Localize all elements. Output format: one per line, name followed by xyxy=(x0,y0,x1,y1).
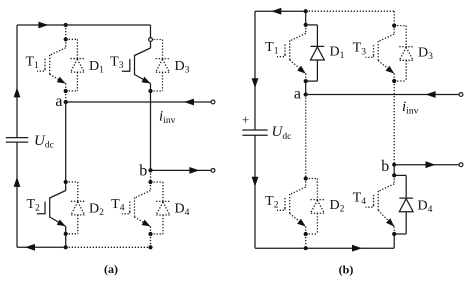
junction at (150.5,247.3) (a) xyxy=(148,245,152,249)
wire: node b down to T4 collector junction (a) xyxy=(150,170,152,182)
diode D3 (a) xyxy=(151,40,170,92)
wire: left rail lower (b) xyxy=(254,135,256,248)
wire: bottom rail (b) xyxy=(255,247,394,249)
diode D2 (b) xyxy=(306,179,325,235)
wire: left rail lower (a) xyxy=(16,142,18,247)
transistor T1 (a) xyxy=(37,39,66,91)
capacitor Udc (b) xyxy=(242,129,267,131)
current arrow on bottom rail (b), pointing right xyxy=(352,245,362,252)
svg-text:T2: T2 xyxy=(26,197,40,214)
current arrow on left rail lower (a), pointing up xyxy=(14,177,21,187)
svg-text:D3: D3 xyxy=(418,45,433,62)
junction at (394.2,175.4) (b) xyxy=(392,173,396,177)
wire: left rail upper (a) xyxy=(16,25,18,138)
junction at (65.7,233.8) (a) xyxy=(64,232,68,236)
wire: node a to output terminal (a) xyxy=(66,101,213,103)
current arrow on left rail upper (a), pointing up xyxy=(14,87,21,97)
svg-text:b: b xyxy=(381,158,389,175)
wire: node a to output terminal (b) xyxy=(306,94,461,96)
svg-text:Udc: Udc xyxy=(272,124,292,142)
wire: node b to output terminal (a) xyxy=(151,169,214,171)
junction at (65.7,182) (a) xyxy=(64,180,68,184)
svg-text:D4: D4 xyxy=(418,199,433,216)
node b (a) xyxy=(148,168,152,172)
junction at (65.7,247.3) (a) xyxy=(64,245,68,249)
current arrow on bottom rail (a), pointing left xyxy=(25,244,35,251)
svg-text:T1: T1 xyxy=(265,40,279,57)
current arrow on left rail upper (b), pointing down xyxy=(252,78,259,88)
transistor T3 (a) xyxy=(122,40,151,92)
wire: T4 emitter junction to bottom rail (a) xyxy=(150,234,152,247)
diode D4 (a) xyxy=(151,182,170,234)
current arrow on b wire (a), pointing right xyxy=(189,167,199,174)
wire: node a down to T2 collector junction (a) xyxy=(65,102,67,182)
junction at (305.7,178.5) (b) xyxy=(304,176,308,180)
junction at (305.7,24.9) (b) xyxy=(304,23,308,27)
transistor T1 (b) xyxy=(277,25,306,81)
svg-text:T3: T3 xyxy=(110,54,124,71)
current arrow i_inv (b), pointing left xyxy=(426,91,436,98)
junction at (394.2,81) (b) xyxy=(392,79,396,83)
svg-text:iinv: iinv xyxy=(402,99,419,117)
wire: T1/D1 junction down to node a xyxy=(65,91,67,102)
current arrow on b wire (b), pointing right xyxy=(426,161,436,168)
circuit (a) xyxy=(6,22,215,276)
wire: T3/D3 junction down to node b (b) xyxy=(393,81,395,165)
wire: left rail upper (b) xyxy=(254,11,256,130)
wire: bottom rail solid part (a) xyxy=(17,246,66,248)
wire: node b to output terminal (b) xyxy=(394,164,461,166)
node b (b) xyxy=(392,163,396,167)
wire: T4/D4 junction to bottom rail (b) xyxy=(393,234,395,248)
wire: leg A top stub (b) xyxy=(305,11,307,25)
junction at (305.7,11.2) (b) xyxy=(304,9,308,13)
current arrow on left rail lower (b), pointing down xyxy=(252,177,259,187)
junction at (65.7,25) (a) xyxy=(64,23,68,27)
junction at (394.2,25.6) (b) xyxy=(392,24,396,28)
terminal a (b) xyxy=(459,93,463,97)
wire: top rail corner down to T3 (b) xyxy=(393,11,395,25)
wire: node b down to T4/D4 junction (b) xyxy=(393,165,395,176)
svg-text:Udc: Udc xyxy=(34,133,54,151)
transistor T3 (b) xyxy=(366,26,395,81)
svg-text:T4: T4 xyxy=(111,197,125,214)
wire: node a down to T2 collector junction (b) xyxy=(305,95,307,179)
svg-text:b: b xyxy=(139,162,147,179)
junction at (150.5,182) (a) xyxy=(148,180,152,184)
svg-text:+: + xyxy=(242,112,249,127)
terminal a (a) xyxy=(211,100,215,104)
diode D1 (a) xyxy=(66,39,85,91)
junction at (150.5,234) (a) xyxy=(148,232,152,236)
wire: top rail (a) xyxy=(17,24,151,26)
svg-text:(a): (a) xyxy=(104,262,118,276)
svg-text:D3: D3 xyxy=(175,59,190,76)
terminal b (a) xyxy=(211,169,215,173)
transistor T4 (b) xyxy=(366,175,395,234)
wire: top rail dotted part (b) xyxy=(306,10,395,12)
wire: T2 emitter junction to bottom rail (a) xyxy=(65,234,67,248)
terminal b (b) xyxy=(459,163,463,167)
junction at (65.7,39.3) (a) xyxy=(64,37,68,41)
transistor T2 (a) xyxy=(37,182,66,234)
transistor T2 (b) xyxy=(277,179,306,235)
circuit (b) xyxy=(242,8,463,277)
diode D1 (b) xyxy=(306,25,325,81)
svg-text:iinv: iinv xyxy=(159,108,176,126)
node a (b) xyxy=(304,92,308,96)
svg-text:(b): (b) xyxy=(339,263,354,277)
svg-text:D4: D4 xyxy=(175,202,190,219)
wire: T3 emitter junction down to node b (a) xyxy=(150,91,152,170)
svg-text:D2: D2 xyxy=(89,202,104,219)
transistor T4 (a) xyxy=(122,182,151,234)
capacitor Udc (a) xyxy=(6,137,28,139)
wire: top rail solid part (b) xyxy=(255,10,306,12)
wire: top rail corner down to T3 collector circle (a) xyxy=(150,25,152,37)
svg-text:T1: T1 xyxy=(25,54,39,71)
node a (a) xyxy=(64,100,68,104)
diode D2 (a) xyxy=(66,182,85,234)
svg-text:D1: D1 xyxy=(330,44,345,61)
junction at (305.7,81.1) (b) xyxy=(304,79,308,83)
junction at (305.7,234) (b) xyxy=(304,232,308,236)
current arrow on top rail (b), pointing left xyxy=(271,8,281,15)
svg-text:D1: D1 xyxy=(89,59,104,76)
open circle at T3 collector (a) xyxy=(149,38,153,42)
junction at (305.7,248.2) (b) xyxy=(304,246,308,250)
wire: T2 emitter junction to bottom rail (b) xyxy=(305,234,307,248)
wire: bottom rail dotted part (a) xyxy=(66,246,151,248)
current arrow on top rail (a), pointing right xyxy=(38,22,48,29)
junction at (150.5,91) (a) xyxy=(148,89,152,93)
svg-text:T4: T4 xyxy=(353,191,367,208)
diode D3 (b) xyxy=(394,26,413,81)
svg-text:T2: T2 xyxy=(265,194,279,211)
junction at (394.2,234) (b) xyxy=(392,232,396,236)
diode D4 (b) xyxy=(394,175,413,234)
svg-text:D2: D2 xyxy=(330,198,345,215)
svg-text:T3: T3 xyxy=(353,41,367,58)
svg-text:a: a xyxy=(55,93,62,110)
wire: T1/D1 junction to node a (b) xyxy=(305,81,307,94)
svg-text:a: a xyxy=(294,85,301,102)
wire: leg A top stub (a) xyxy=(65,25,67,39)
current arrow i_inv (a), pointing left xyxy=(184,99,194,106)
junction at (65.7,91) (a) xyxy=(64,89,68,93)
